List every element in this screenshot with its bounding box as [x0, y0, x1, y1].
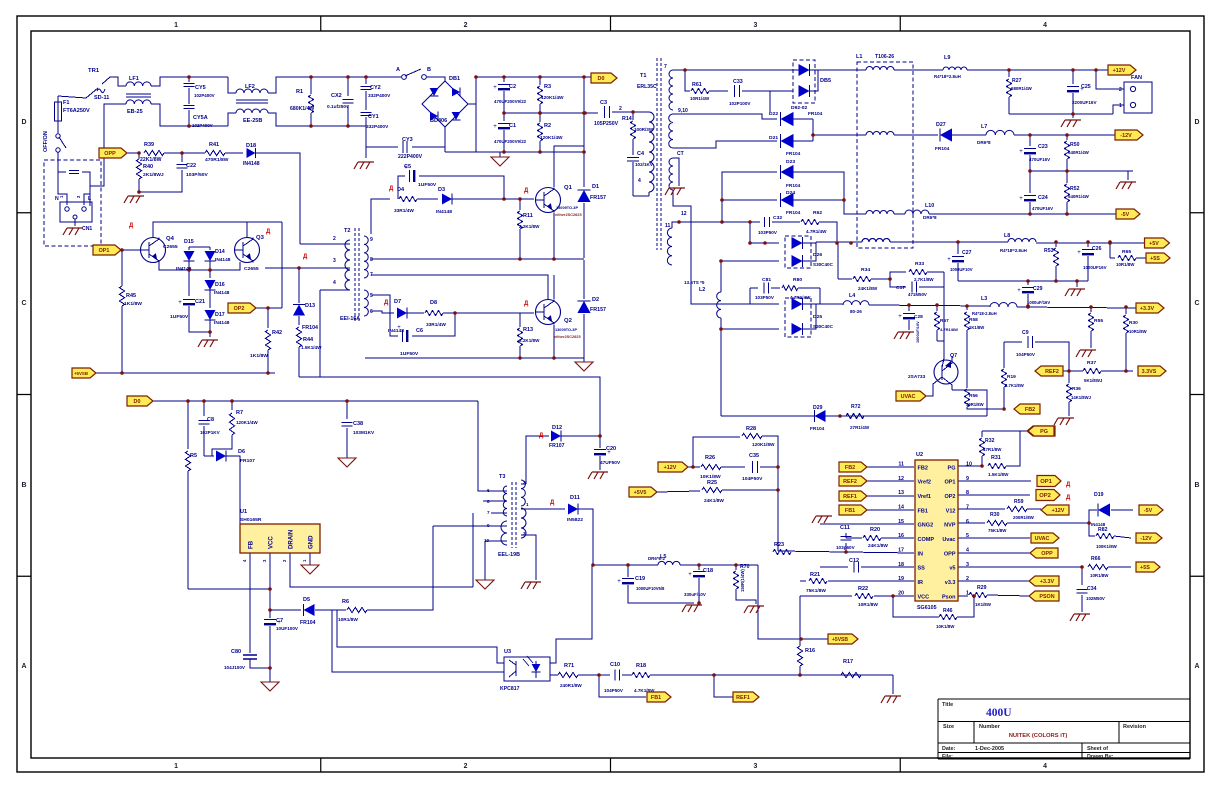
svg-text:2: 2 [464, 763, 468, 770]
svg-text:1: 1 [526, 502, 529, 507]
svg-text:OP1: OP1 [1040, 479, 1052, 485]
svg-text:D1: D1 [592, 184, 599, 190]
svg-text:470UF16V: 470UF16V [1032, 206, 1053, 211]
svg-text:IN4148: IN4148 [388, 328, 404, 334]
svg-text:D18: D18 [246, 143, 256, 149]
svg-text:Pson: Pson [942, 594, 956, 600]
svg-text:R16: R16 [805, 648, 815, 654]
svg-text:IN5822: IN5822 [567, 517, 583, 523]
svg-text:1-Dec-2005: 1-Dec-2005 [975, 746, 1004, 752]
svg-text:R11: R11 [523, 213, 533, 219]
svg-text:R41: R41 [209, 142, 219, 148]
svg-text:S30C40C: S30C40C [813, 262, 834, 267]
svg-text:R22: R22 [858, 586, 868, 592]
svg-text:OP1: OP1 [944, 480, 955, 486]
svg-text:680K1/4W: 680K1/4W [290, 106, 314, 112]
svg-text:4: 4 [1043, 763, 1047, 770]
svg-text:R70: R70 [740, 564, 750, 570]
svg-text:Title: Title [942, 702, 953, 708]
svg-text:NUITEK (COLORS iT): NUITEK (COLORS iT) [1009, 733, 1068, 739]
svg-text:Q7: Q7 [950, 353, 957, 359]
svg-text:CY5A: CY5A [193, 115, 208, 121]
svg-text:D11: D11 [570, 495, 580, 501]
svg-text:13009TO-3P: 13009TO-3P [555, 328, 577, 332]
svg-text:2.7K1/8W: 2.7K1/8W [1005, 383, 1024, 388]
svg-text:+: + [397, 325, 401, 331]
svg-text:D5: D5 [303, 597, 310, 603]
svg-text:either2SC2625: either2SC2625 [554, 335, 581, 339]
svg-text:FR107: FR107 [549, 443, 565, 449]
svg-text:120K1/4W: 120K1/4W [541, 95, 564, 101]
svg-text:C22: C22 [186, 163, 196, 169]
svg-text:CY1: CY1 [368, 114, 379, 120]
svg-text:10K1/8W: 10K1/8W [936, 624, 955, 629]
svg-text:+5VSB: +5VSB [832, 637, 848, 643]
svg-text:R18: R18 [636, 663, 646, 669]
svg-text:D2: D2 [592, 297, 599, 303]
svg-text:C23: C23 [1038, 144, 1048, 150]
svg-text:OP2: OP2 [234, 306, 245, 312]
svg-text:C2: C2 [509, 84, 516, 90]
svg-text:D26: D26 [813, 252, 822, 258]
svg-text:DB5: DB5 [820, 78, 831, 84]
svg-text:D: D [1195, 119, 1200, 126]
svg-text:FR107: FR107 [240, 458, 255, 464]
svg-text:U3: U3 [504, 649, 511, 655]
svg-text:FB2: FB2 [918, 465, 928, 471]
svg-text:75K1/8W: 75K1/8W [806, 588, 826, 594]
svg-text:471M50V: 471M50V [908, 292, 927, 297]
svg-text:D6: D6 [238, 449, 245, 455]
svg-text:C1: C1 [509, 123, 516, 129]
svg-text:D13: D13 [305, 303, 315, 309]
svg-text:D: D [22, 119, 27, 126]
svg-text:C24: C24 [1038, 195, 1048, 201]
svg-text:v3.3: v3.3 [945, 580, 956, 586]
svg-text:OPP: OPP [104, 151, 116, 157]
svg-text:1UF50V: 1UF50V [418, 182, 437, 188]
svg-text:102P400V: 102P400V [194, 93, 215, 98]
svg-text:14K1/8WJ: 14K1/8WJ [1071, 395, 1092, 400]
svg-text:1.5K1/4W: 1.5K1/4W [301, 345, 322, 350]
svg-text:200R1/8W: 200R1/8W [1013, 515, 1035, 520]
svg-text:FR104: FR104 [935, 146, 950, 152]
svg-text:14: 14 [898, 504, 904, 510]
svg-text:Size: Size [943, 724, 954, 730]
svg-text:3: 3 [966, 562, 969, 568]
svg-text:R42: R42 [272, 330, 282, 336]
svg-text:EE-25B: EE-25B [243, 118, 262, 124]
svg-text:7: 7 [966, 504, 969, 510]
svg-text:+5S: +5S [1140, 565, 1150, 571]
svg-text:103P50V: 103P50V [755, 295, 775, 300]
svg-text:Д: Д [524, 301, 529, 307]
svg-text:2.7K1/8W: 2.7K1/8W [914, 277, 934, 282]
svg-text:103M1KV: 103M1KV [353, 430, 375, 436]
svg-text:2200UF16V: 2200UF16V [1072, 100, 1097, 105]
svg-text:LF1: LF1 [129, 76, 139, 82]
svg-text:D8: D8 [430, 300, 437, 306]
svg-text:R55: R55 [1094, 318, 1103, 324]
svg-text:104P50V: 104P50V [1016, 352, 1036, 357]
svg-text:D4: D4 [397, 187, 405, 193]
svg-text:470UF200V9/22: 470UF200V9/22 [494, 139, 527, 144]
svg-text:Sheet of: Sheet of [1087, 746, 1108, 752]
svg-text:A: A [22, 663, 27, 670]
svg-text:C18: C18 [703, 568, 713, 574]
svg-text:4: 4 [638, 178, 641, 184]
svg-text:104P50V: 104P50V [604, 688, 624, 693]
svg-text:104J100V: 104J100V [224, 665, 246, 670]
svg-text:L1: L1 [856, 54, 862, 60]
svg-text:16: 16 [898, 533, 904, 539]
svg-text:D27: D27 [936, 122, 946, 128]
svg-text:R34: R34 [861, 267, 870, 273]
svg-text:GNG2: GNG2 [918, 523, 934, 529]
svg-text:C: C [1195, 300, 1200, 307]
svg-text:FR104: FR104 [300, 620, 316, 626]
svg-text:400U: 400U [986, 707, 1012, 719]
svg-text:8: 8 [370, 257, 373, 263]
svg-text:Д: Д [539, 433, 544, 439]
svg-text:SG6105: SG6105 [917, 605, 937, 611]
svg-text:IN4148: IN4148 [214, 320, 230, 326]
svg-text:R20: R20 [870, 527, 880, 533]
svg-text:10R1/8W: 10R1/8W [338, 617, 358, 623]
svg-text:FB: FB [249, 540, 255, 549]
svg-text:FAN: FAN [1131, 75, 1142, 81]
svg-text:L8: L8 [1004, 233, 1010, 239]
svg-text:10: 10 [966, 462, 972, 468]
svg-text:C35: C35 [749, 453, 759, 459]
svg-text:1: 1 [966, 590, 969, 596]
svg-text:Date:: Date: [942, 746, 956, 752]
svg-text:C6: C6 [416, 328, 423, 334]
svg-text:4: 4 [966, 547, 969, 553]
svg-text:24K1/8W: 24K1/8W [868, 543, 888, 549]
svg-text:NVP: NVP [944, 523, 956, 529]
svg-text:C: C [22, 300, 27, 307]
svg-text:D25: D25 [813, 314, 822, 320]
svg-text:17: 17 [898, 547, 904, 553]
svg-text:13.5TS *5: 13.5TS *5 [684, 280, 705, 285]
svg-text:IN4148: IN4148 [215, 257, 231, 263]
svg-text:R66: R66 [1091, 556, 1101, 562]
svg-text:C4: C4 [637, 151, 645, 157]
svg-text:332P400V: 332P400V [368, 93, 391, 99]
svg-text:Д: Д [129, 223, 134, 229]
svg-text:10UF100V: 10UF100V [276, 626, 299, 631]
svg-text:104P50V: 104P50V [742, 476, 763, 482]
svg-text:2: 2 [333, 236, 336, 242]
svg-text:330uF/10V: 330uF/10V [684, 592, 706, 597]
svg-text:3.3VS: 3.3VS [1142, 369, 1157, 375]
svg-text:IN4148: IN4148 [436, 209, 452, 215]
svg-text:FR104: FR104 [786, 151, 801, 157]
svg-text:C3: C3 [600, 100, 607, 106]
svg-text:FR157: FR157 [590, 195, 606, 201]
svg-text:L: L [88, 196, 91, 202]
svg-text:8: 8 [966, 490, 969, 496]
svg-text:FT6A250V: FT6A250V [63, 108, 90, 114]
svg-text:D14: D14 [215, 249, 225, 255]
svg-text:R25: R25 [707, 480, 717, 486]
svg-text:2K1/8WJ: 2K1/8WJ [143, 172, 164, 178]
svg-text:4.7R1/4W: 4.7R1/4W [806, 229, 827, 234]
svg-text:Д: Д [1066, 482, 1071, 488]
svg-text:CX2: CX2 [331, 93, 342, 99]
svg-text:D23: D23 [786, 159, 795, 165]
svg-text:1UF50V: 1UF50V [170, 314, 189, 320]
svg-text:18: 18 [898, 562, 904, 568]
svg-text:C8: C8 [207, 417, 214, 423]
svg-text:R37: R37 [1087, 360, 1096, 366]
svg-text:CY3: CY3 [402, 137, 413, 143]
svg-text:either2SC2625: either2SC2625 [555, 213, 582, 217]
svg-text:Д: Д [384, 300, 389, 306]
svg-text:47UF50V: 47UF50V [600, 460, 621, 466]
svg-text:R59: R59 [1014, 499, 1024, 505]
svg-text:OP2: OP2 [1039, 493, 1051, 499]
svg-text:+: + [898, 314, 902, 320]
svg-text:R30: R30 [990, 512, 1000, 518]
svg-text:R21: R21 [810, 572, 820, 578]
svg-text:C2655: C2655 [163, 244, 178, 250]
svg-text:R72: R72 [851, 404, 861, 410]
svg-text:R3: R3 [544, 84, 551, 90]
svg-text:C21: C21 [195, 299, 205, 305]
svg-text:C27: C27 [962, 250, 972, 256]
svg-text:540R1/4W: 540R1/4W [1068, 194, 1090, 199]
svg-text:R4*18-2.8uH: R4*18-2.8uH [972, 311, 997, 316]
svg-text:R58: R58 [969, 317, 978, 323]
svg-text:REF1: REF1 [736, 695, 750, 701]
svg-text:R56: R56 [969, 393, 978, 399]
svg-text:D17: D17 [215, 312, 225, 318]
svg-text:24K1/8W: 24K1/8W [704, 498, 724, 504]
svg-text:L9: L9 [944, 55, 950, 61]
svg-text:R31: R31 [991, 455, 1001, 461]
svg-text:B: B [427, 67, 431, 73]
svg-text:R17: R17 [843, 659, 853, 665]
svg-text:1K1/8W: 1K1/8W [975, 602, 992, 607]
svg-text:120K1/4W: 120K1/4W [540, 135, 563, 141]
svg-text:D0: D0 [134, 399, 141, 405]
svg-text:Vref1: Vref1 [918, 494, 932, 500]
svg-text:4: 4 [333, 280, 336, 286]
svg-text:39R1/8W: 39R1/8W [966, 402, 984, 407]
svg-text:R61: R61 [692, 82, 702, 88]
svg-text:1K1/8W: 1K1/8W [969, 325, 984, 330]
svg-text:R52: R52 [1070, 186, 1080, 192]
svg-text:D24: D24 [786, 190, 795, 196]
svg-text:Vref2: Vref2 [918, 480, 932, 486]
svg-text:470UF200V9/22: 470UF200V9/22 [494, 99, 527, 104]
svg-text:IN4148: IN4148 [176, 266, 192, 272]
svg-text:D3: D3 [438, 187, 445, 193]
svg-text:FR104: FR104 [786, 210, 801, 216]
svg-text:8: 8 [487, 499, 490, 504]
svg-text:10R1/8W: 10R1/8W [1116, 262, 1135, 267]
svg-text:Q4: Q4 [166, 236, 175, 242]
svg-text:2: 2 [464, 22, 468, 29]
svg-text:C20: C20 [606, 446, 616, 452]
svg-text:T3: T3 [499, 474, 505, 480]
svg-text:D16: D16 [215, 282, 225, 288]
svg-text:FB2: FB2 [845, 465, 855, 471]
svg-text:120K1/4W: 120K1/4W [236, 420, 258, 425]
svg-text:+: + [493, 85, 497, 91]
svg-text:10R1/8W: 10R1/8W [1090, 573, 1109, 578]
svg-text:C12: C12 [849, 558, 859, 564]
svg-text:7: 7 [487, 510, 490, 515]
svg-text:+12V: +12V [1052, 508, 1065, 514]
svg-text:-12V: -12V [1140, 536, 1152, 542]
svg-text:FB1: FB1 [651, 695, 661, 701]
svg-text:R4*18=2.8uH: R4*18=2.8uH [1000, 248, 1027, 253]
svg-text:R7: R7 [236, 410, 243, 416]
svg-text:+: + [178, 300, 182, 306]
svg-text:B: B [1195, 482, 1200, 489]
svg-text:C29: C29 [1033, 286, 1043, 292]
svg-text:2.2K1/8W: 2.2K1/8W [519, 224, 540, 229]
svg-text:D21: D21 [769, 135, 778, 141]
svg-text:103P/50V: 103P/50V [186, 172, 208, 178]
svg-text:10K1/8W: 10K1/8W [700, 474, 721, 480]
svg-text:100K1/8W: 100K1/8W [1096, 544, 1118, 549]
svg-text:1: 1 [1119, 103, 1122, 109]
svg-text:5: 5 [370, 293, 373, 299]
svg-text:1: 1 [174, 763, 178, 770]
svg-text:Д: Д [524, 188, 529, 194]
svg-text:9,10: 9,10 [678, 108, 688, 114]
svg-text:+: + [1019, 196, 1023, 202]
svg-text:1K1/8W: 1K1/8W [124, 301, 142, 307]
svg-text:EEL-19B: EEL-19B [498, 552, 520, 558]
svg-text:1000UF10V5/8: 1000UF10V5/8 [636, 586, 665, 591]
svg-text:33R1/4W: 33R1/4W [426, 322, 446, 328]
svg-text:Д: Д [389, 186, 394, 192]
svg-text:2SA733: 2SA733 [908, 374, 926, 380]
svg-text:REF1: REF1 [843, 494, 857, 500]
svg-text:+5VSB: +5VSB [74, 371, 88, 376]
svg-text:470UF16V: 470UF16V [1029, 157, 1050, 162]
svg-text:DB1: DB1 [449, 76, 460, 82]
svg-text:11: 11 [898, 462, 904, 468]
svg-text:T2: T2 [344, 228, 350, 234]
svg-text:FR104: FR104 [808, 111, 823, 117]
svg-text:L2: L2 [699, 287, 705, 293]
svg-text:1K1/8W: 1K1/8W [250, 353, 268, 359]
svg-text:+12V: +12V [1113, 68, 1126, 74]
svg-text:+3.3V: +3.3V [1040, 579, 1055, 585]
svg-text:+5V5: +5V5 [634, 490, 647, 496]
svg-text:C11: C11 [840, 525, 850, 531]
svg-text:Д: Д [266, 229, 271, 235]
svg-text:B: B [22, 482, 27, 489]
svg-text:103p60V: 103p60V [836, 545, 856, 550]
svg-text:-12V: -12V [1120, 133, 1132, 139]
svg-text:A: A [396, 67, 400, 73]
svg-text:102P1KV: 102P1KV [200, 430, 221, 435]
svg-text:OFF/ON: OFF/ON [43, 131, 49, 152]
svg-text:+3.3V: +3.3V [1140, 306, 1155, 312]
svg-text:R27: R27 [1012, 78, 1022, 84]
svg-text:7: 7 [664, 64, 667, 70]
svg-text:640R1/4W: 640R1/4W [1068, 150, 1090, 155]
svg-text:C81: C81 [762, 277, 771, 283]
svg-text:CY2: CY2 [370, 85, 381, 91]
svg-text:PG: PG [948, 465, 956, 471]
svg-text:PG: PG [1040, 429, 1048, 435]
svg-text:11: 11 [665, 223, 671, 229]
svg-text:10R1/8W: 10R1/8W [1129, 329, 1147, 334]
svg-text:33R1/4W: 33R1/4W [394, 208, 414, 214]
svg-text:2: 2 [1119, 87, 1122, 93]
svg-text:10R1/8W: 10R1/8W [858, 602, 878, 608]
svg-text:R29: R29 [977, 585, 987, 591]
svg-text:C2655: C2655 [244, 266, 259, 272]
svg-text:CY5: CY5 [195, 85, 206, 91]
svg-text:R57: R57 [940, 318, 949, 324]
svg-text:102P400V: 102P400V [192, 123, 213, 128]
svg-text:R40: R40 [143, 164, 153, 170]
svg-text:103P50V: 103P50V [758, 230, 778, 235]
svg-text:2: 2 [619, 106, 622, 112]
svg-text:R14: R14 [622, 116, 632, 122]
svg-text:Д: Д [550, 500, 555, 506]
svg-text:102P100V: 102P100V [729, 101, 751, 106]
svg-text:SD-11: SD-11 [94, 95, 109, 101]
svg-text:47R1/8W: 47R1/8W [983, 447, 1002, 452]
svg-text:2: 2 [523, 480, 526, 485]
svg-text:1000UF10V: 1000UF10V [950, 267, 973, 272]
svg-text:IR: IR [918, 580, 924, 586]
svg-text:TR1: TR1 [88, 68, 100, 74]
svg-text:T106-26: T106-26 [875, 54, 894, 60]
svg-text:Number: Number [979, 724, 1001, 730]
svg-text:FR104: FR104 [810, 426, 825, 432]
svg-text:OPP: OPP [1041, 551, 1053, 557]
svg-text:6: 6 [487, 488, 490, 493]
svg-text:D22: D22 [769, 111, 778, 117]
svg-text:SH0165R: SH0165R [240, 517, 262, 523]
svg-text:D7: D7 [394, 299, 401, 305]
svg-text:3: 3 [753, 763, 757, 770]
svg-text:R65: R65 [1122, 249, 1131, 255]
svg-text:U2: U2 [916, 452, 923, 458]
svg-text:+: + [1077, 250, 1081, 256]
svg-text:FR157: FR157 [590, 307, 606, 313]
svg-text:Uvac: Uvac [942, 537, 955, 543]
svg-text:9: 9 [487, 523, 490, 528]
svg-text:Revision: Revision [1123, 724, 1147, 730]
svg-text:IN4148: IN4148 [214, 290, 230, 296]
svg-text:Q3: Q3 [256, 235, 265, 241]
svg-text:IN4148: IN4148 [243, 161, 260, 167]
svg-text:D92-02: D92-02 [791, 105, 807, 111]
svg-text:R44: R44 [303, 337, 314, 343]
svg-text:Д: Д [303, 254, 308, 260]
svg-text:C25: C25 [1081, 84, 1091, 90]
svg-text:R1: R1 [296, 89, 303, 95]
svg-text:R39: R39 [144, 142, 154, 148]
svg-text:C34: C34 [1087, 586, 1097, 592]
svg-text:D19: D19 [1094, 492, 1104, 498]
svg-text:L7: L7 [981, 124, 987, 130]
svg-text:120K1/8W: 120K1/8W [752, 442, 775, 448]
svg-text:DR6*8-2: DR6*8-2 [648, 556, 665, 561]
